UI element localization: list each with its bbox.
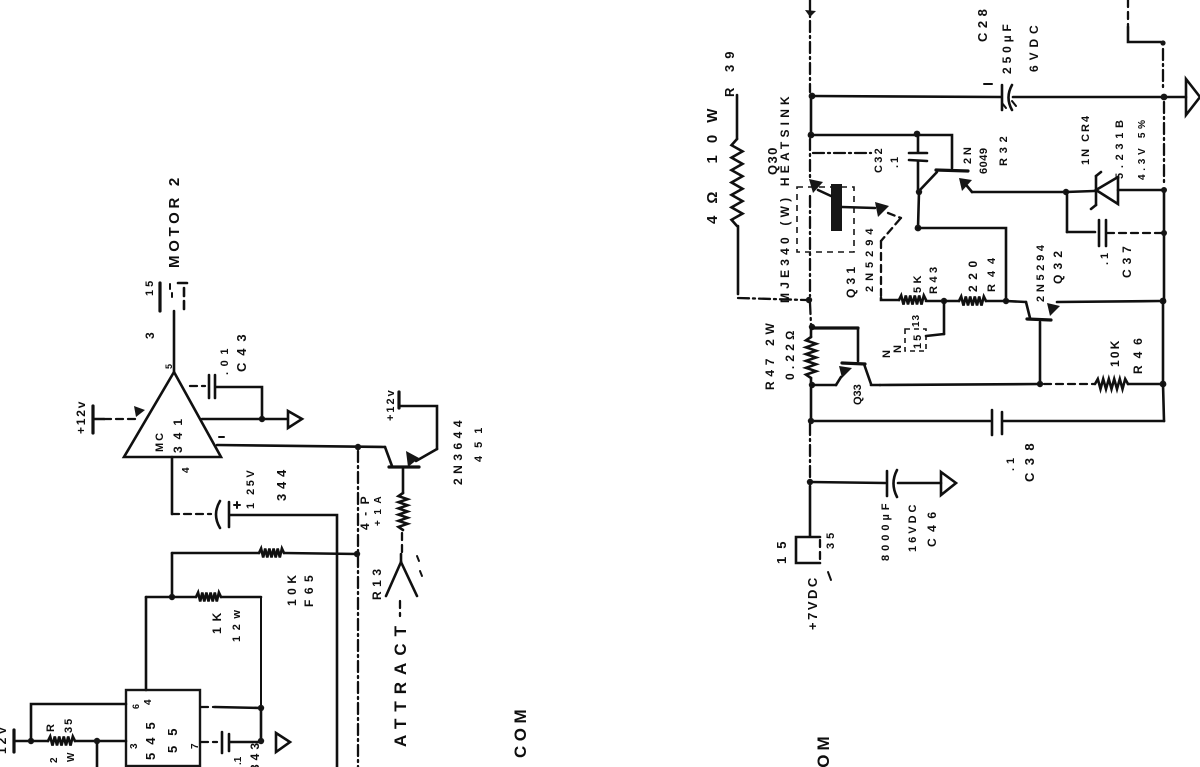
resistor Q14 collector — [358, 469, 408, 556]
wire op-amp pin2 to transistor base — [217, 437, 385, 447]
top rail wire — [812, 96, 1001, 97]
resistor R47 0.22 2W — [763, 318, 816, 390]
svg-text:MOTOR 2: MOTOR 2 — [166, 174, 183, 268]
wire node down to C45 line — [260, 708, 263, 741]
svg-text:344: 344 — [274, 465, 289, 501]
wire top-right L — [1128, 0, 1166, 91]
svg-text:+7VDC: +7VDC — [805, 575, 820, 630]
wire F65 corner down — [171, 553, 174, 597]
svg-text:.1: .1 — [1099, 250, 1111, 265]
op-amp U (motor driver) — [124, 364, 221, 473]
svg-text:4: 4 — [181, 467, 192, 473]
top rail wire right — [1013, 96, 1186, 99]
wire down to +7VDC connector — [809, 486, 812, 536]
connector chevron R13 — [370, 554, 422, 600]
svg-text:C28: C28 — [975, 5, 990, 42]
svg-text:2: 2 — [49, 757, 60, 763]
wire y228 to Q32 base — [918, 228, 1006, 300]
svg-text:0.22Ω: 0.22Ω — [783, 326, 797, 380]
zener diode CR4 1N5231B — [1066, 114, 1161, 209]
svg-text:5K: 5K — [912, 272, 924, 293]
wire Q emitter line — [972, 191, 1066, 194]
connector box 15 — [892, 303, 944, 353]
capacitor C38 — [812, 410, 1164, 482]
label ATTRACT — [391, 619, 410, 747]
svg-text:C43: C43 — [234, 327, 249, 372]
svg-text:2N: 2N — [962, 144, 974, 164]
node 555 output — [258, 705, 264, 711]
svg-text:15: 15 — [912, 333, 924, 349]
node emitter/diode — [1063, 189, 1069, 195]
node C38 tap — [808, 418, 814, 424]
svg-text:250µF: 250µF — [1000, 20, 1014, 74]
svg-text:MC: MC — [154, 431, 166, 452]
svg-text:W: W — [66, 752, 77, 762]
svg-text:C37: C37 — [1120, 241, 1134, 278]
power 12V rail (bottom left, clipped) — [0, 724, 31, 754]
svg-text:R43: R43 — [928, 263, 940, 294]
svg-text:35: 35 — [63, 717, 75, 733]
svg-text:8000µF: 8000µF — [880, 499, 892, 561]
resistor R39 4ohm 10W — [704, 46, 806, 300]
svg-text:R32: R32 — [998, 131, 1010, 166]
svg-text:Q30: Q30 — [765, 146, 780, 175]
svg-text:N: N — [892, 345, 904, 353]
capacitor C46 8000uF — [810, 470, 941, 561]
svg-text:Q32: Q32 — [1051, 246, 1065, 284]
svg-text:Q33: Q33 — [852, 384, 864, 405]
svg-text:1K: 1K — [210, 607, 224, 634]
resistor F65 10K — [172, 549, 357, 608]
timer 555 box — [126, 690, 201, 766]
svg-text:+1A: +1A — [373, 491, 384, 526]
capacitor C43 — [190, 327, 262, 419]
svg-text:545: 545 — [143, 714, 158, 760]
node C37/right bus — [1161, 230, 1167, 236]
capacitor C45 — [201, 732, 262, 767]
svg-text:6049: 6049 — [978, 148, 990, 174]
wire 555 output to node — [201, 707, 261, 708]
transistor Q14 2N3644 — [385, 406, 485, 485]
node R39/bus — [806, 297, 812, 303]
svg-text:12V: 12V — [0, 724, 9, 754]
svg-text:R: R — [45, 724, 57, 732]
svg-text:.01: .01 — [219, 343, 231, 375]
svg-text:C46: C46 — [925, 505, 939, 547]
off-page arrow (output) — [288, 411, 302, 428]
node R35/555 — [94, 738, 100, 744]
off-page arrow (C46) — [941, 472, 956, 495]
svg-text:+12v: +12v — [74, 400, 88, 434]
potentiometer Q30 (dashed enclosure) — [797, 179, 901, 300]
node Q32 collector line — [1003, 298, 1009, 304]
wire node down — [918, 192, 919, 228]
transistor Q32 — [1006, 241, 1160, 383]
dash-dot bus below R47 — [810, 388, 811, 478]
svg-text:4Ω 10W: 4Ω 10W — [704, 97, 721, 224]
svg-text:N: N — [881, 350, 893, 358]
svg-text:R46: R46 — [1131, 331, 1145, 374]
transistor Q 2N6049 — [919, 101, 1016, 192]
node Q32 base/R46 line — [1037, 381, 1043, 387]
wire op-amp inverting input down — [172, 457, 211, 514]
svg-text:3: 3 — [143, 332, 157, 339]
svg-text:Q31: Q31 — [844, 263, 858, 298]
svg-text:15: 15 — [144, 278, 156, 296]
wire connector to op-amp apex — [173, 311, 176, 372]
wire C44 to right vertical — [230, 515, 337, 767]
node R43/R44 — [941, 298, 947, 304]
svg-text:341: 341 — [171, 412, 185, 453]
node y228 — [915, 225, 922, 232]
svg-text:35: 35 — [825, 529, 837, 549]
node op-amp output — [259, 416, 265, 422]
svg-text:5: 5 — [164, 364, 174, 369]
svg-text:4-P: 4-P — [358, 489, 372, 530]
node left rail — [28, 738, 34, 744]
svg-text:COM: COM — [511, 705, 530, 758]
svg-text:6VDC: 6VDC — [1027, 20, 1041, 72]
svg-text:.1: .1 — [889, 155, 901, 168]
dashed wire below chevron — [399, 601, 401, 616]
wire node down (clipped) — [96, 744, 99, 767]
power +12v (op-amp) — [74, 400, 104, 434]
resistor R46 10K — [880, 331, 1163, 389]
svg-text:R44: R44 — [986, 251, 998, 292]
node top rail right — [1161, 94, 1168, 101]
svg-text:ATTRACT: ATTRACT — [391, 619, 410, 747]
op-amp input arrow — [134, 406, 145, 417]
label MOTOR 2 — [166, 174, 183, 268]
node bus/R47 — [809, 324, 815, 330]
resistor 1K 1/2W — [146, 593, 261, 643]
svg-text:F65: F65 — [302, 570, 316, 607]
capacitor C44 25V electrolytic — [216, 465, 289, 528]
svg-text:.1: .1 — [233, 756, 244, 765]
resistor R43 — [899, 263, 944, 304]
svg-text:10K: 10K — [1108, 338, 1122, 367]
connector J5 pin 3 (motor output) — [143, 278, 187, 339]
dash-dot net ATTRACT bus — [357, 451, 359, 767]
capacitor C28 250uF (series) — [975, 5, 1041, 110]
svg-text:13: 13 — [911, 314, 922, 327]
dashed input wire from +12v — [104, 418, 140, 420]
resistor R35 — [31, 717, 126, 763]
node Q32 emitter/right bus — [1160, 298, 1167, 305]
node R46/right bus — [1160, 381, 1167, 388]
svg-text:2N5294: 2N5294 — [864, 223, 876, 292]
svg-text:55: 55 — [165, 719, 180, 753]
svg-text:+12v: +12v — [385, 388, 397, 421]
svg-text:.1: .1 — [1005, 454, 1017, 471]
wire output to arrow — [202, 418, 287, 421]
svg-text:12w: 12w — [231, 604, 243, 642]
svg-text:451: 451 — [473, 420, 485, 462]
connector +7VDC — [774, 529, 837, 630]
svg-text:1 25V: 1 25V — [245, 468, 257, 509]
node C32 bottom — [916, 189, 922, 195]
svg-text:R47 2W: R47 2W — [763, 318, 777, 390]
svg-text:4.3V 5%: 4.3V 5% — [1137, 116, 1148, 180]
capacitor C37 — [1067, 195, 1161, 278]
svg-text:15: 15 — [774, 534, 789, 564]
svg-text:2N5294: 2N5294 — [1035, 241, 1047, 302]
node bus/second rail — [808, 132, 815, 139]
svg-text:16VDC: 16VDC — [907, 502, 919, 552]
node 1K/F65 — [169, 594, 175, 600]
resistor R44 220 — [944, 251, 1006, 306]
node C45/arrow — [258, 738, 264, 744]
node F65/bus — [354, 551, 360, 557]
svg-text:7: 7 — [190, 743, 201, 749]
node base-line / dash-dot — [355, 444, 361, 450]
dash-dot stub y153 — [813, 152, 871, 154]
wire loop over R35 to 555 — [31, 704, 126, 741]
wire 1K to 555 pin — [145, 597, 148, 690]
svg-text:4: 4 — [143, 699, 154, 705]
capacitor C32 — [873, 135, 927, 192]
svg-text:R13: R13 — [370, 564, 384, 600]
svg-text:3: 3 — [129, 743, 140, 749]
svg-text:2N3644: 2N3644 — [451, 416, 465, 485]
svg-text:C38: C38 — [1022, 436, 1037, 482]
svg-text:C32: C32 — [873, 146, 885, 173]
off-page arrow (top right) — [1186, 79, 1200, 115]
wire 1K right leg down — [260, 597, 262, 708]
right bus vertical — [1163, 102, 1164, 421]
node R47 bottom — [809, 382, 815, 388]
node C46 tap — [807, 479, 813, 485]
dash-dot vertical bus x810 — [805, 0, 816, 325]
node diode/right bus — [1161, 187, 1167, 193]
node C32 top — [914, 131, 921, 138]
svg-text:COM: COM — [814, 732, 833, 767]
svg-text:1N CR4: 1N CR4 — [1080, 114, 1092, 165]
node bus/top rail — [809, 93, 816, 100]
second rail wire — [811, 135, 952, 168]
svg-text:220: 220 — [966, 255, 980, 292]
svg-text:MJE340 (W) HEATSINK: MJE340 (W) HEATSINK — [778, 92, 792, 303]
off-page arrow (555) — [276, 733, 290, 752]
power +12v (Q14) — [385, 388, 399, 421]
transistor Q33 — [812, 350, 893, 405]
svg-text:R 39: R 39 — [722, 46, 737, 97]
wire R47 top to Q33 collector — [812, 328, 858, 361]
svg-text:10K: 10K — [285, 570, 299, 606]
svg-text:6: 6 — [131, 704, 141, 709]
svg-text:5.231B: 5.231B — [1114, 115, 1126, 179]
